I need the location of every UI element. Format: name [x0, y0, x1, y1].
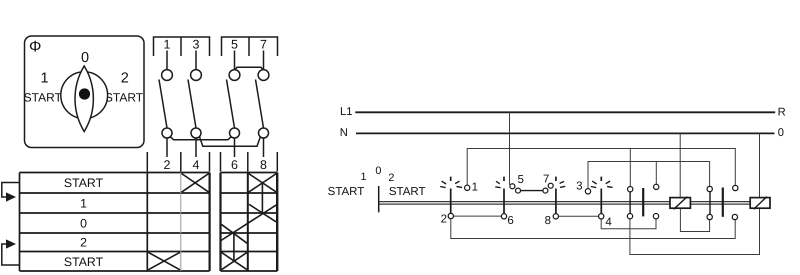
svg-text:6: 6: [507, 215, 513, 227]
svg-text:0: 0: [375, 165, 381, 177]
svg-text:START: START: [64, 255, 104, 269]
svg-text:8: 8: [545, 215, 551, 227]
svg-text:1: 1: [360, 171, 366, 183]
svg-text:0: 0: [80, 217, 87, 231]
svg-text:5: 5: [231, 38, 238, 52]
svg-text:START: START: [328, 186, 365, 198]
svg-text:3: 3: [576, 181, 582, 193]
svg-text:1: 1: [40, 71, 48, 87]
svg-text:8: 8: [260, 158, 267, 172]
svg-text:2: 2: [80, 236, 87, 250]
svg-text:L1: L1: [340, 106, 352, 118]
svg-text:4: 4: [605, 216, 612, 228]
svg-text:3: 3: [193, 38, 200, 52]
svg-text:4: 4: [193, 158, 200, 172]
svg-text:1: 1: [472, 182, 478, 194]
svg-text:2: 2: [388, 172, 394, 184]
svg-text:7: 7: [543, 174, 549, 186]
svg-text:2: 2: [441, 213, 447, 225]
svg-text:START: START: [389, 186, 426, 198]
svg-text:1: 1: [164, 38, 171, 52]
svg-text:START: START: [64, 176, 104, 190]
svg-text:2: 2: [164, 158, 171, 172]
svg-text:1: 1: [80, 197, 87, 211]
svg-text:0: 0: [81, 50, 89, 66]
svg-text:R: R: [778, 107, 786, 119]
svg-text:7: 7: [260, 38, 267, 52]
svg-text:START: START: [105, 91, 144, 105]
svg-text:2: 2: [121, 71, 129, 87]
svg-text:Φ: Φ: [29, 38, 41, 55]
svg-text:START: START: [24, 91, 63, 105]
svg-text:6: 6: [231, 158, 238, 172]
svg-text:5: 5: [517, 174, 523, 186]
svg-text:N: N: [340, 127, 348, 139]
svg-text:0: 0: [778, 127, 784, 139]
